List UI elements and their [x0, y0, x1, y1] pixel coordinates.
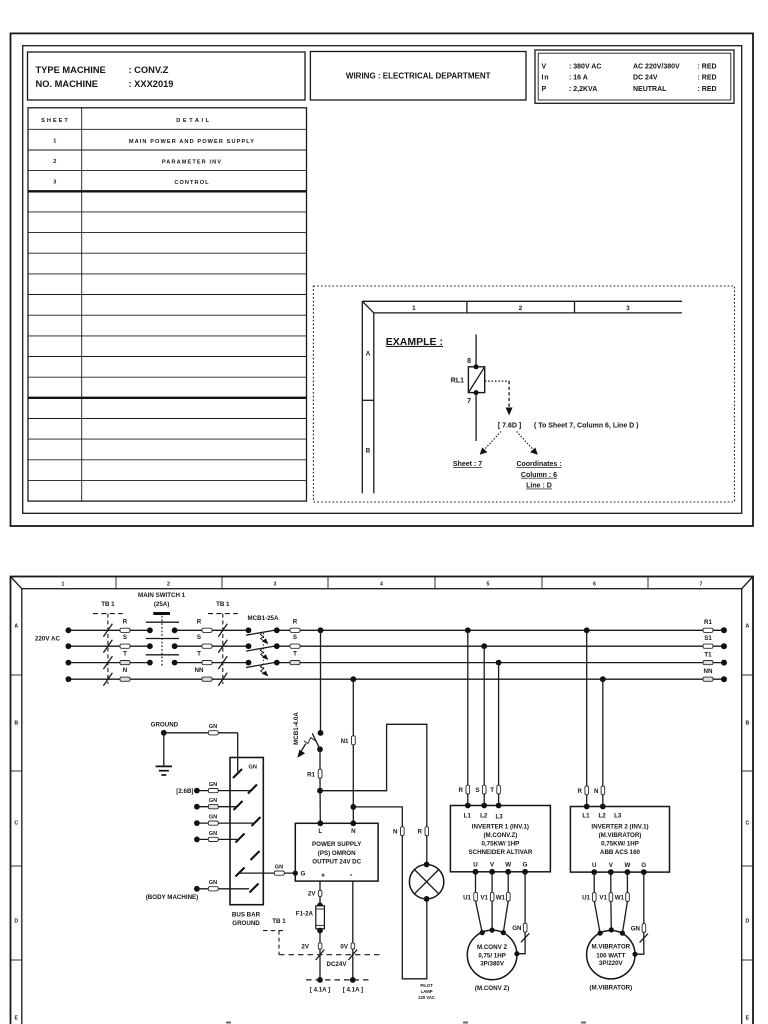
terminal T after breaker	[290, 651, 300, 665]
terminal T	[120, 651, 130, 665]
wire inv2 W	[626, 872, 628, 893]
svg-text:: 16 A: : 16 A	[569, 75, 588, 82]
svg-text:A: A	[14, 624, 18, 630]
svg-text:(BODY MACHINE): (BODY MACHINE)	[146, 894, 198, 901]
svg-text:L1: L1	[464, 812, 472, 819]
svg-text:A: A	[746, 624, 750, 630]
wire breaker to fuse R1	[319, 749, 321, 769]
example mini frame left band	[362, 301, 374, 493]
terminal N	[120, 667, 130, 681]
svg-text:S: S	[475, 787, 479, 794]
svg-text:100 WATT: 100 WATT	[596, 952, 625, 959]
fuse GN inv1	[512, 923, 527, 932]
wire ground to bus bar	[164, 732, 238, 734]
wire R lamp	[426, 836, 428, 865]
svg-text:MCB1-25A: MCB1-25A	[248, 615, 279, 622]
svg-text:U1: U1	[582, 895, 590, 902]
dotted explainer arrow left	[480, 432, 501, 455]
disconnect slash minus	[349, 950, 358, 961]
page 2 inner border frame	[22, 589, 742, 1024]
wire F1 to 2V fuse	[319, 929, 321, 943]
svg-text:M.CONV Z: M.CONV Z	[477, 944, 507, 951]
node ground	[161, 730, 167, 736]
svg-text:N: N	[594, 788, 599, 795]
svg-text:[ 4.1A ]: [ 4.1A ]	[343, 986, 363, 993]
svg-text:EXAMPLE :: EXAMPLE :	[386, 336, 443, 348]
svg-text:WIRING : ELECTRICAL DEPARTMENT: WIRING : ELECTRICAL DEPARTMENT	[346, 72, 491, 81]
fuse U1	[463, 892, 477, 901]
wire [2.6B] to bus bar	[176, 782, 250, 795]
svg-text:MAIN SWITCH 1: MAIN SWITCH 1	[138, 592, 186, 599]
svg-text:D: D	[746, 919, 750, 925]
dashed tb line bottom	[306, 979, 371, 981]
title block: wiring department	[310, 52, 526, 101]
svg-text:LAMP: LAMP	[421, 989, 433, 994]
wire N drop	[350, 676, 356, 736]
svg-text:DETAIL: DETAIL	[176, 118, 211, 124]
sheet index table	[28, 108, 307, 501]
terminal S after breaker	[290, 634, 300, 648]
svg-text:[ 7.6D ]: [ 7.6D ]	[498, 422, 521, 429]
node dc plus	[317, 977, 323, 983]
svg-text:TB 1: TB 1	[101, 601, 115, 608]
svg-text:[ 4.1A ]: [ 4.1A ]	[310, 986, 330, 993]
svg-text:[2.6B]: [2.6B]	[176, 788, 193, 795]
svg-text:V: V	[490, 862, 495, 869]
bus bar ground	[230, 758, 263, 928]
terminal R1 right end	[703, 619, 727, 633]
svg-text:0,75KW/ 1HP: 0,75KW/ 1HP	[481, 841, 519, 848]
svg-text:CONTROL: CONTROL	[174, 180, 209, 186]
svg-text:GROUND: GROUND	[151, 721, 179, 728]
svg-text:1: 1	[53, 138, 56, 144]
svg-text:NN: NN	[704, 668, 713, 675]
title block: machine info	[28, 52, 306, 100]
node pin 8	[467, 358, 479, 369]
svg-text:V1: V1	[599, 895, 607, 902]
svg-text:V1: V1	[480, 894, 488, 901]
fuse V1 inv2	[599, 893, 612, 902]
wire gn 4 to bus bar	[194, 831, 239, 843]
svg-text:: CONV.Z: : CONV.Z	[129, 65, 169, 75]
svg-text:POWER SUPPLY: POWER SUPPLY	[312, 841, 362, 848]
svg-text:7: 7	[700, 582, 703, 588]
inverter U2 box	[570, 804, 669, 875]
svg-text:S: S	[123, 634, 127, 641]
svg-text:0,75KW/ 1HP: 0,75KW/ 1HP	[601, 841, 639, 848]
terminal T1 right end	[703, 652, 727, 666]
svg-text:GN: GN	[512, 925, 522, 932]
wire R branch to lamp	[320, 724, 427, 827]
terminal block TB1 dc	[263, 918, 286, 955]
column scale band	[62, 577, 703, 589]
svg-text:OUTPUT 24V DC: OUTPUT 24V DC	[312, 859, 361, 866]
svg-text:R: R	[123, 618, 128, 625]
wire inv1 L1 drop	[467, 630, 469, 785]
svg-text:INVERTER 1 (INV.1): INVERTER 1 (INV.1)	[472, 824, 529, 831]
wire phase S	[68, 645, 724, 647]
svg-text:L1: L1	[582, 812, 590, 819]
svg-text:-: -	[350, 870, 353, 879]
svg-text:GN: GN	[631, 926, 641, 933]
svg-text:R: R	[418, 829, 423, 836]
relay RL1	[451, 367, 485, 393]
fuse T inv1	[490, 785, 500, 794]
terminal GN ground wire	[208, 724, 218, 735]
row scale band left	[11, 624, 22, 1022]
svg-text:( To Sheet 7, Column 6, Line D: ( To Sheet 7, Column 6, Line D )	[534, 422, 639, 429]
node inv1 R tap	[465, 627, 471, 633]
svg-text:U1: U1	[463, 894, 471, 901]
terminal R after switch	[197, 618, 212, 632]
wire inv1 W	[507, 872, 509, 893]
fuse 2V	[308, 890, 322, 897]
svg-text:: 2,2KVA: : 2,2KVA	[569, 86, 597, 93]
node F1 top	[317, 903, 323, 909]
svg-text:Line : D: Line : D	[526, 483, 552, 490]
svg-text:D: D	[14, 919, 18, 925]
svg-text:AC 220V/380V: AC 220V/380V	[633, 64, 680, 71]
svg-text:2: 2	[519, 305, 523, 312]
svg-text:GN: GN	[275, 865, 283, 871]
wire inv2 G	[643, 872, 645, 924]
svg-text:DC24V: DC24V	[327, 961, 348, 968]
svg-text:BUS BAR: BUS BAR	[232, 911, 261, 918]
svg-text:R1: R1	[704, 619, 712, 626]
svg-text:4: 4	[380, 582, 383, 588]
wire gn 3 to bus bar	[194, 815, 255, 826]
svg-text:(M.CONV.Z): (M.CONV.Z)	[483, 832, 517, 839]
wire phase R	[68, 629, 724, 631]
svg-text:R: R	[459, 787, 464, 794]
breaker MCB1-25A	[246, 615, 280, 677]
svg-text:L2: L2	[480, 812, 488, 819]
svg-text:P: P	[542, 86, 547, 93]
terminal block TB1 left	[93, 601, 123, 686]
disconnect slash plus	[316, 950, 325, 961]
svg-text:W1: W1	[615, 895, 625, 902]
page 1 outer border frame	[11, 33, 754, 526]
svg-text:3: 3	[626, 305, 630, 312]
svg-text:2V: 2V	[301, 944, 309, 951]
svg-text:T: T	[490, 787, 494, 794]
svg-text:: RED: : RED	[698, 64, 717, 71]
svg-text:NEUTRAL: NEUTRAL	[633, 86, 667, 93]
wire fuse N1 to power supply N	[352, 745, 354, 824]
node N branch	[350, 804, 356, 810]
terminal R	[120, 618, 130, 632]
svg-text:NN: NN	[195, 667, 204, 674]
svg-text:N1: N1	[341, 738, 349, 745]
breaker MCB1-4.0A	[293, 712, 323, 758]
terminal NN right end	[703, 668, 727, 682]
svg-text:Column : 6: Column : 6	[521, 472, 557, 479]
page 1 inner border frame	[23, 46, 742, 514]
wire fuse R1 to power supply L	[319, 778, 321, 823]
svg-text:GN: GN	[209, 798, 217, 804]
svg-text:: RED: : RED	[698, 75, 717, 82]
fuse R1	[307, 769, 322, 778]
wire inv1 G	[524, 872, 526, 924]
wire inv1 L2 drop	[483, 646, 485, 785]
fuse F1-2A	[296, 906, 325, 929]
fuse U1 inv2	[582, 893, 596, 902]
svg-text:B: B	[14, 721, 18, 727]
svg-text:T: T	[123, 651, 127, 658]
wire PS plus output	[319, 881, 321, 890]
svg-text:N: N	[123, 667, 128, 674]
node inv1 S tap	[481, 643, 487, 649]
svg-text:E: E	[746, 1016, 750, 1022]
svg-text:220V AC: 220V AC	[35, 635, 60, 642]
title block: ratings box	[535, 50, 734, 103]
svg-text:ABB ACS 160: ABB ACS 160	[600, 849, 641, 856]
svg-text:S: S	[197, 634, 201, 641]
svg-text:A: A	[366, 350, 371, 357]
power supply PS OMRON	[293, 820, 378, 881]
dashed reference arrow	[485, 381, 513, 415]
fuse 2V lower	[301, 943, 321, 951]
wire phase T	[68, 662, 724, 664]
svg-text:SCHNEIDER ALTIVAR: SCHNEIDER ALTIVAR	[468, 849, 532, 856]
wire body machine to bus bar	[146, 880, 249, 901]
svg-text:U: U	[473, 862, 478, 869]
svg-text:TB 1: TB 1	[216, 601, 230, 608]
svg-text:2: 2	[167, 582, 170, 588]
svg-text:NO. MACHINE: NO. MACHINE	[36, 79, 99, 89]
svg-text:: XXX2019: : XXX2019	[129, 79, 174, 89]
svg-text:1: 1	[62, 582, 65, 588]
svg-text:Coordinates :: Coordinates :	[516, 461, 561, 468]
svg-text:M.VIBRATOR: M.VIBRATOR	[591, 944, 630, 951]
svg-text:3P/220V: 3P/220V	[599, 960, 624, 967]
svg-text:0,75/ 1HP: 0,75/ 1HP	[478, 953, 506, 960]
wire PS minus output	[352, 881, 354, 943]
svg-text:GROUND: GROUND	[232, 920, 260, 927]
terminal T after switch	[197, 651, 212, 665]
node inv2 R tap	[584, 627, 590, 633]
svg-text:: RED: : RED	[698, 86, 717, 93]
svg-text:G: G	[523, 862, 528, 869]
svg-text:R: R	[293, 618, 298, 625]
disconnect slash gn2	[640, 934, 648, 943]
terminal NN after switch	[195, 667, 212, 681]
fuse R inv1	[459, 785, 470, 794]
svg-text:L3: L3	[614, 812, 622, 819]
svg-text:B: B	[746, 721, 750, 727]
svg-text:MAIN POWER AND POWER SUPPLY: MAIN POWER AND POWER SUPPLY	[129, 139, 255, 145]
fuse V1	[480, 892, 494, 901]
svg-text:GN: GN	[209, 782, 217, 788]
wire 0V to dc terminal	[352, 949, 354, 980]
svg-text:T: T	[293, 651, 297, 658]
svg-text:B: B	[366, 447, 371, 454]
fuse R inv2	[578, 786, 589, 795]
ground symbol	[156, 733, 172, 775]
svg-text:INVERTER 2 (INV.1): INVERTER 2 (INV.1)	[591, 824, 648, 831]
svg-text:3: 3	[53, 180, 56, 186]
pilot lamp	[409, 862, 443, 1001]
page 2 outer border frame	[11, 577, 754, 1024]
wire 2V to dc terminal	[319, 949, 321, 980]
svg-text:L2: L2	[598, 812, 606, 819]
disconnect slash gn1	[521, 933, 529, 942]
node R branch	[317, 788, 323, 794]
node inv2 N tap	[600, 676, 606, 682]
svg-text:U: U	[592, 862, 597, 869]
wire GN entry to bus bar top	[237, 733, 239, 772]
svg-text:(M.CONV Z): (M.CONV Z)	[475, 985, 509, 992]
svg-text:G: G	[641, 862, 646, 869]
wire inv1 V	[491, 872, 493, 893]
fuse N1	[341, 736, 356, 745]
svg-text:(25A): (25A)	[154, 601, 169, 608]
fuse R lamp	[418, 827, 429, 836]
wire inv1 U	[475, 872, 477, 893]
svg-text:S1: S1	[704, 635, 712, 642]
svg-text:TYPE MACHINE: TYPE MACHINE	[36, 65, 106, 75]
page 2 corner diagonals	[11, 577, 22, 589]
svg-text:F1-2A: F1-2A	[296, 910, 314, 917]
svg-text:(M.VIBRATOR): (M.VIBRATOR)	[599, 832, 642, 839]
node dc minus	[350, 977, 356, 983]
svg-text:GN: GN	[209, 724, 217, 730]
cut-off marks at page bottom	[226, 1022, 586, 1024]
svg-text:220 VAC: 220 VAC	[418, 995, 435, 1000]
svg-text:GN: GN	[249, 765, 257, 771]
svg-text:PARAMETER INV: PARAMETER INV	[162, 159, 222, 165]
wire inv2 L2 drop	[602, 679, 604, 786]
wire R drop to breaker	[320, 630, 322, 733]
svg-text:R1: R1	[307, 772, 315, 779]
node inv1 T tap	[496, 660, 502, 666]
svg-text:2: 2	[53, 159, 56, 165]
svg-text:0V: 0V	[340, 944, 348, 951]
node source T	[66, 660, 72, 666]
svg-text:V: V	[542, 64, 547, 71]
fuse N lamp	[393, 827, 404, 836]
terminal block TB1 second	[208, 601, 238, 686]
svg-text:R: R	[197, 618, 202, 625]
svg-text:L: L	[318, 828, 322, 835]
svg-text:G: G	[301, 871, 306, 878]
motor M.VIBRATOR	[587, 927, 638, 979]
wire bus bar to power supply G	[239, 865, 295, 876]
dashed tb line dc24v	[279, 955, 380, 969]
svg-text:PILOT: PILOT	[420, 983, 433, 988]
svg-text:W1: W1	[496, 894, 506, 901]
svg-text:W: W	[505, 862, 511, 869]
svg-text:GN: GN	[209, 880, 217, 886]
svg-text:N: N	[393, 829, 398, 836]
node source R	[66, 627, 72, 633]
svg-text:2V: 2V	[308, 891, 316, 898]
svg-text:3: 3	[274, 582, 277, 588]
svg-text:S: S	[293, 634, 297, 641]
terminal R after breaker	[290, 618, 300, 632]
svg-text:1: 1	[412, 305, 416, 312]
svg-text:6: 6	[593, 582, 596, 588]
svg-text:L3: L3	[495, 813, 503, 820]
svg-text:T1: T1	[704, 652, 712, 659]
svg-text:GN: GN	[209, 815, 217, 821]
label coordinates	[516, 461, 561, 490]
row scale band right	[742, 624, 753, 1022]
example legend dashed box	[313, 286, 734, 502]
terminal S after switch	[197, 634, 212, 648]
fuse W1 inv2	[615, 893, 630, 902]
svg-text:7: 7	[467, 398, 471, 405]
terminal S1 right end	[703, 635, 727, 649]
svg-text:: 380V AC: : 380V AC	[569, 64, 601, 71]
wire inv2 V	[610, 872, 612, 893]
svg-text:Sheet : 7: Sheet : 7	[453, 461, 482, 468]
svg-text:E: E	[14, 1016, 18, 1022]
inverter U1 box	[450, 803, 550, 875]
svg-text:V: V	[609, 862, 614, 869]
wire N branch to lamp	[353, 807, 402, 827]
fuse GN inv2	[631, 924, 646, 933]
svg-text:T: T	[197, 651, 201, 658]
dotted explainer arrow right	[517, 432, 538, 455]
svg-text:MCB1-4.0A: MCB1-4.0A	[293, 712, 300, 745]
wire N lamp loop	[402, 836, 427, 979]
node F1 bottom	[317, 928, 323, 934]
wire inv1 L3 drop	[498, 663, 500, 786]
node pin 7	[467, 390, 479, 405]
svg-text:DC 24V: DC 24V	[633, 75, 658, 82]
terminal S	[120, 634, 130, 648]
wire gn 2 to bus bar	[194, 798, 237, 810]
node R tap	[318, 627, 324, 633]
node source S	[66, 643, 72, 649]
svg-text:In: In	[542, 75, 550, 82]
fuse N inv2	[594, 786, 605, 795]
svg-text:8: 8	[467, 358, 471, 365]
wire inv2 L1 drop	[586, 630, 588, 786]
main switch 1 (25A)	[138, 592, 186, 667]
fuse 0V	[340, 943, 354, 951]
svg-text:GN: GN	[209, 831, 217, 837]
fuse S inv1	[475, 785, 486, 794]
svg-text:R: R	[578, 788, 583, 795]
svg-text:C: C	[14, 821, 18, 827]
svg-text:+: +	[321, 872, 325, 879]
svg-text:SHEET: SHEET	[41, 118, 70, 124]
svg-text:W: W	[624, 862, 630, 869]
svg-text:5: 5	[487, 582, 490, 588]
svg-text:RL1: RL1	[451, 377, 464, 384]
wire to fuse holder	[319, 896, 321, 905]
svg-text:C: C	[746, 821, 750, 827]
svg-text:(PS) OMRON: (PS) OMRON	[318, 850, 356, 857]
svg-text:TB 1: TB 1	[272, 918, 286, 925]
wire inv2 U	[593, 872, 595, 893]
fuse W1	[496, 892, 510, 901]
wire neutral N	[68, 678, 724, 680]
motor M.CONV Z	[467, 928, 519, 980]
node source N	[66, 676, 72, 682]
svg-text:N: N	[351, 828, 356, 835]
svg-text:(M.VIBRATOR): (M.VIBRATOR)	[589, 984, 632, 991]
wire to relay RL1	[475, 334, 477, 441]
svg-text:3P/380V: 3P/380V	[480, 960, 505, 967]
example mini frame top band	[362, 301, 682, 313]
